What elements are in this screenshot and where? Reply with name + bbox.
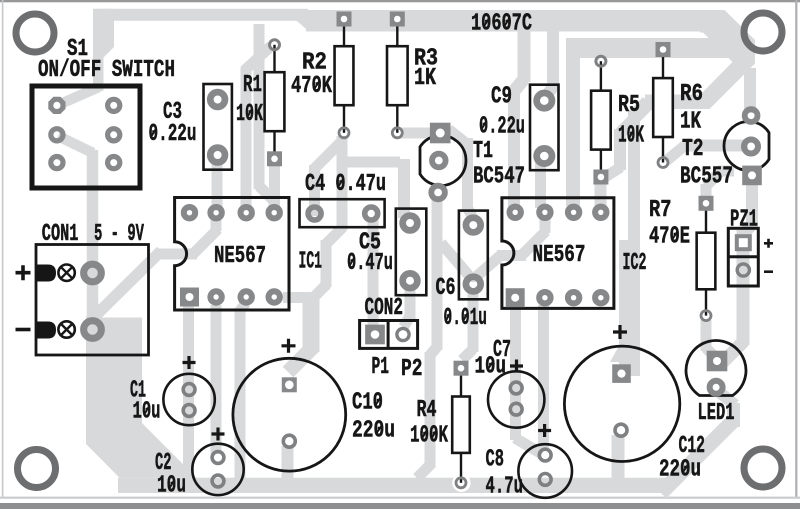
svg-text:NE567: NE567 — [214, 243, 266, 270]
svg-text:R7: R7 — [649, 197, 672, 224]
svg-text:C10: C10 — [352, 390, 383, 417]
svg-text:BC557: BC557 — [680, 164, 733, 191]
svg-text:T1: T1 — [473, 138, 493, 165]
svg-text:C4 0.47u: C4 0.47u — [305, 171, 386, 198]
svg-text:P2: P2 — [401, 356, 423, 383]
svg-text:0.47u: 0.47u — [347, 250, 393, 277]
svg-text:CON1: CON1 — [42, 221, 79, 248]
svg-text:4.7u: 4.7u — [486, 474, 524, 501]
svg-text:C9: C9 — [491, 84, 512, 111]
svg-text:IC2: IC2 — [623, 250, 647, 277]
svg-text:470K: 470K — [291, 73, 332, 100]
svg-text:1K: 1K — [680, 109, 701, 136]
svg-text:0.22u: 0.22u — [149, 121, 197, 148]
svg-text:220u: 220u — [352, 418, 395, 445]
svg-text:CON2: CON2 — [365, 295, 404, 322]
svg-text:LED1: LED1 — [698, 400, 735, 427]
svg-text:10607C: 10607C — [471, 11, 532, 38]
svg-text:BC547: BC547 — [473, 164, 525, 191]
svg-text:470E: 470E — [649, 224, 690, 251]
svg-text:ON/OFF SWITCH: ON/OFF SWITCH — [38, 57, 175, 84]
svg-text:PZ1: PZ1 — [730, 207, 758, 234]
svg-text:0.22u: 0.22u — [479, 114, 525, 141]
svg-text:P1: P1 — [372, 354, 390, 381]
svg-text:NE567: NE567 — [533, 242, 586, 269]
svg-text:IC1: IC1 — [299, 249, 323, 276]
svg-text:R6: R6 — [680, 81, 703, 108]
svg-text:5 - 9V: 5 - 9V — [94, 221, 144, 248]
svg-text:C8: C8 — [486, 447, 505, 474]
svg-text:C6: C6 — [436, 275, 456, 302]
svg-text:R1: R1 — [243, 72, 262, 99]
svg-text:T2: T2 — [682, 136, 704, 163]
svg-text:100K: 100K — [410, 423, 448, 450]
svg-text:1K: 1K — [414, 65, 436, 92]
svg-text:R5: R5 — [618, 92, 640, 119]
svg-text:R4: R4 — [417, 397, 437, 424]
svg-text:220u: 220u — [659, 457, 701, 484]
